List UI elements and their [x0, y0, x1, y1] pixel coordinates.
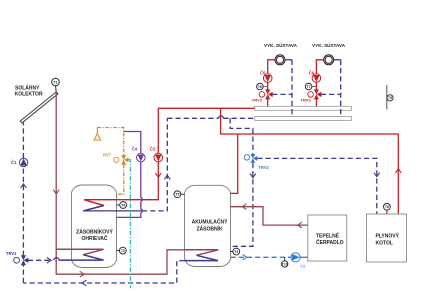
wire maroon heat pump supply to accumulator	[231, 207, 308, 225]
svg-text:Č4: Č4	[132, 146, 138, 151]
pump C4	[132, 146, 145, 162]
sensor T6 circuit 1	[257, 83, 268, 90]
arrow right steelblue	[243, 254, 247, 260]
wire navy heating circuit 1 return	[272, 60, 292, 117]
arrow down navy TRV2 line	[250, 174, 256, 178]
svg-text:Č5: Č5	[260, 70, 266, 75]
valve TRV3 circuit 1	[252, 89, 273, 102]
sensor T1	[52, 78, 60, 92]
arrow up navy return	[164, 175, 170, 179]
svg-text:VYK. SÚSTAVA: VYK. SÚSTAVA	[264, 42, 298, 48]
arrow down navy at boiler	[374, 173, 380, 177]
valve TRV2 three-way	[244, 154, 269, 170]
wire cyan cold water dash-dot	[129, 160, 131, 288]
sensor T2	[117, 247, 127, 254]
manifold supply bar	[255, 106, 352, 110]
arrow right TRV1 branch	[47, 257, 51, 263]
svg-text:ČERPADLO: ČERPADLO	[316, 239, 344, 246]
svg-text:TRV3: TRV3	[301, 98, 312, 103]
wire red boiler supply: junction to boiler and accumulator top	[221, 108, 399, 214]
wire steelblue C3 heat pump return	[231, 256, 308, 258]
wire orange DHW outlet dash-dot	[97, 128, 123, 195]
heating circle 2	[324, 55, 334, 65]
pump C3	[291, 253, 306, 269]
wire purple C4 circulation circuit	[117, 132, 143, 218]
arrow left bottom return	[82, 280, 86, 286]
wire solar supply maroon: collector to DHW coil and accumulator coil	[56, 92, 184, 274]
svg-text:T7: T7	[307, 85, 311, 89]
svg-text:T10: T10	[282, 262, 288, 266]
sensor T5	[174, 191, 185, 198]
heating circle 1	[275, 55, 285, 65]
tank2 coil	[185, 250, 219, 261]
pump C5 circuit 1	[260, 70, 272, 82]
wire navy return: coil bottom to manifold return	[83, 116, 255, 211]
tank1 upper coil (red top, navy bottom)	[84, 200, 104, 211]
wire red heating circuit 2 supply	[316, 60, 323, 107]
pump C2	[150, 146, 163, 162]
svg-text:Č6: Č6	[309, 70, 315, 75]
arrow down red C2	[155, 173, 161, 177]
svg-text:T5: T5	[175, 193, 179, 197]
wire navy heating circuit 2 return	[321, 60, 341, 117]
wire red C2 circuit: coil top to manifold supply	[84, 108, 255, 199]
wire TRV1 branch to DHW coil return (dashed, hop over maroon)	[28, 258, 59, 261]
sensor T7 circuit 2	[305, 83, 316, 90]
valve TRV1 three-way	[6, 251, 28, 265]
manifold return bar	[255, 116, 352, 120]
svg-text:T3: T3	[234, 250, 238, 254]
safety funnel orange	[94, 128, 101, 141]
svg-text:T6: T6	[258, 85, 262, 89]
svg-text:TRV1: TRV1	[6, 251, 17, 256]
svg-text:T8: T8	[385, 205, 389, 209]
arrow right solar supply bottom	[80, 271, 84, 277]
svg-text:TRV3: TRV3	[252, 98, 263, 103]
svg-text:Č2: Č2	[150, 146, 156, 151]
box gas boiler PLYNOVY KOTOL	[367, 214, 407, 262]
tank1 lower coil chevron	[56, 249, 103, 260]
wire red heating circuit 1 supply	[268, 60, 275, 107]
svg-text:TEPELNÉ: TEPELNÉ	[316, 231, 340, 239]
svg-text:KOLEKTOR: KOLEKTOR	[15, 91, 43, 97]
wire solar return navy dashed: accumulator coil to collector via TRV1, pump C1	[23, 123, 184, 284]
solar collector panel	[20, 92, 58, 123]
sensor T8 boiler	[384, 203, 391, 214]
arrow up return near pump C1	[21, 184, 27, 188]
svg-text:VYK. SÚSTAVA: VYK. SÚSTAVA	[312, 42, 346, 48]
svg-text:PLYNOVÝ: PLYNOVÝ	[376, 233, 400, 240]
wire navy TRV2 feed from return line	[230, 118, 253, 246]
outdoor wall sensor T9	[387, 85, 393, 110]
svg-text:Č3: Č3	[300, 263, 306, 268]
sensor T10 on C3 line	[282, 257, 288, 267]
valve TRV3 circuit 2	[301, 89, 322, 102]
sensor T3	[231, 248, 240, 255]
pump C6 circuit 2	[309, 70, 321, 82]
svg-text:AKUMULAČNÝ: AKUMULAČNÝ	[192, 219, 228, 226]
svg-text:TRV2: TRV2	[259, 165, 270, 170]
wire navy TRV2 to gas boiler	[257, 158, 376, 214]
arrow left maroon into tank	[242, 204, 246, 210]
svg-text:T2: T2	[121, 249, 125, 253]
sensor T4	[117, 202, 127, 209]
svg-text:OHRIEVAČ: OHRIEVAČ	[81, 235, 107, 242]
svg-text:KOTOL: KOTOL	[376, 240, 393, 246]
arrow up red at boiler	[395, 169, 401, 173]
svg-text:ZÁSOBNÍKOVÝ: ZÁSOBNÍKOVÝ	[76, 227, 113, 235]
svg-text:T9: T9	[388, 96, 392, 100]
svg-text:T1: T1	[54, 80, 58, 84]
arrow left maroon near heat pump	[298, 222, 302, 228]
label solar collector	[15, 85, 43, 98]
box heat pump TEPELNE CERPADLO	[308, 215, 347, 261]
arrow down solar supply	[53, 190, 59, 194]
pump C1	[11, 158, 28, 166]
svg-text:ZÁSOBNÍK: ZÁSOBNÍK	[196, 225, 223, 233]
tank 1 DHW ZASOBNIKOVY OHRIEVAC	[72, 185, 117, 268]
svg-text:RVT: RVT	[103, 153, 112, 158]
valve RVT thermostatic	[103, 153, 129, 165]
svg-text:Č1: Č1	[11, 160, 17, 165]
svg-text:T4: T4	[121, 203, 125, 207]
tank 2 accumulator AKUMULACNY ZASOBNIK	[185, 185, 231, 266]
